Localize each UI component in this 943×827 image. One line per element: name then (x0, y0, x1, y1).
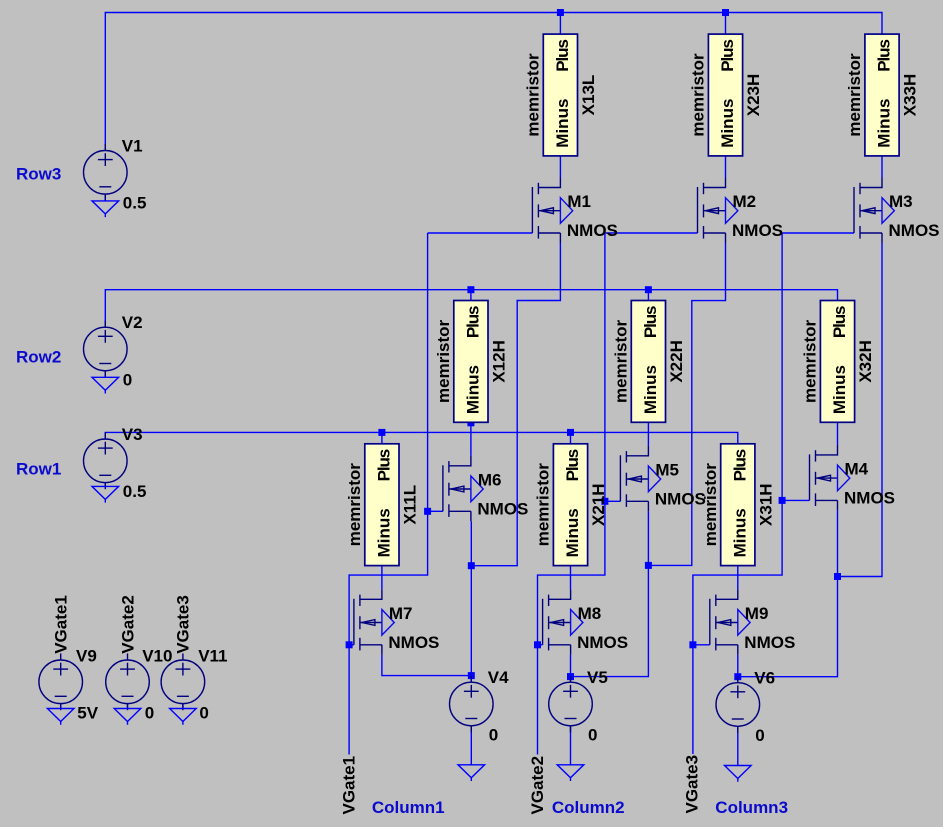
svg-text:0: 0 (588, 725, 597, 744)
wire X11L minus to M7 drain (381, 566, 383, 590)
ground V4 gnd (458, 765, 485, 781)
svg-text:0: 0 (145, 704, 154, 723)
transistor M7 (NMOS) (354, 589, 394, 655)
svg-text:Minus: Minus (730, 508, 749, 557)
svg-text:Minus: Minus (464, 365, 483, 414)
svg-text:Column3: Column3 (715, 798, 788, 817)
svg-text:memristor: memristor (612, 319, 631, 403)
wire X22H plus drop (647, 290, 649, 301)
wire V6 to ground (737, 726, 739, 765)
wire M6 gate feed (428, 510, 443, 512)
wire V3 to Row1 rail (105, 432, 738, 443)
voltage source V1 (84, 144, 128, 201)
svg-text:V10: V10 (142, 646, 172, 665)
junction M8 gate tap (534, 641, 541, 648)
memristor X33H (845, 34, 920, 156)
voltage source V10 (106, 653, 150, 710)
svg-text:V2: V2 (122, 313, 143, 332)
junction M6 gate tap (424, 508, 431, 515)
svg-text:0.5: 0.5 (123, 194, 147, 213)
memristor X21H (534, 444, 609, 566)
memristor X12H (434, 301, 509, 423)
wire X33H minus to M3 drain (881, 156, 883, 178)
svg-text:Plus: Plus (375, 449, 394, 481)
voltage source V5 (549, 676, 593, 733)
svg-text:NMOS: NMOS (655, 489, 706, 508)
svg-text:Row2: Row2 (16, 348, 61, 367)
junction X12H minus pin (467, 419, 474, 426)
svg-text:memristor: memristor (801, 319, 820, 403)
svg-text:5V: 5V (77, 704, 98, 723)
svg-text:Row1: Row1 (16, 459, 61, 478)
junction Row2/X12H (467, 286, 474, 293)
junction Row3/X23H (722, 9, 729, 16)
svg-text:NMOS: NMOS (477, 499, 528, 518)
svg-text:V9: V9 (76, 646, 97, 665)
svg-text:X12H: X12H (490, 340, 509, 383)
ground V1 gnd (92, 201, 119, 217)
memristor X11L (345, 444, 420, 566)
junction V5 top node (567, 673, 574, 680)
wire M5 source down column2 (571, 511, 649, 676)
svg-text:M8: M8 (578, 604, 602, 623)
svg-text:Minus: Minus (553, 99, 572, 148)
svg-text:Plus: Plus (875, 40, 894, 72)
svg-text:Plus: Plus (718, 40, 737, 72)
wire X12H minus to M6 drain (470, 422, 472, 456)
junction Row3/X13L (557, 9, 564, 16)
memristor X23H (689, 34, 764, 156)
voltage source V6 (716, 676, 760, 733)
junction M7 gate tap (346, 641, 353, 648)
wire M1 gate feed (428, 232, 533, 234)
svg-text:Column1: Column1 (372, 798, 445, 817)
wire X23H plus drop (725, 13, 727, 35)
svg-text:X32H: X32H (856, 340, 875, 383)
wire V9 to ground (60, 704, 62, 709)
transistor M5 (NMOS) (620, 446, 660, 512)
wire V1 to ground (104, 194, 106, 201)
wire M7 source to V4 (382, 655, 471, 676)
svg-text:memristor: memristor (534, 463, 553, 547)
svg-text:M7: M7 (389, 604, 413, 623)
ground V3 gnd (92, 486, 119, 502)
wire V4 top (470, 676, 472, 683)
wire V2 to ground (104, 371, 106, 378)
svg-text:memristor: memristor (345, 463, 364, 547)
svg-text:VGate1: VGate1 (52, 595, 71, 654)
transistor M8 (NMOS) (543, 589, 583, 655)
wire M5 gate feed (605, 500, 621, 502)
svg-text:Minus: Minus (563, 508, 582, 557)
svg-text:VGate1: VGate1 (340, 756, 359, 815)
svg-text:V1: V1 (122, 137, 143, 156)
wire M9 source down (737, 655, 739, 677)
svg-text:NMOS: NMOS (732, 221, 783, 240)
svg-text:M4: M4 (845, 459, 869, 478)
svg-text:V11: V11 (198, 646, 227, 665)
svg-text:0.5: 0.5 (123, 482, 147, 501)
wire V2 to Row2 rail (105, 290, 837, 328)
ground V5 gnd (557, 765, 584, 781)
svg-text:X31H: X31H (756, 483, 775, 526)
svg-text:M6: M6 (478, 470, 502, 489)
wire X23H minus to M2 drain (725, 156, 727, 178)
junction Row1/X21H (567, 429, 574, 436)
wire V6 top (737, 677, 739, 683)
svg-text:Plus: Plus (641, 306, 660, 338)
ground V10 gnd (114, 709, 141, 725)
svg-text:0: 0 (199, 704, 208, 723)
wire V1 to Row3 top rail (105, 13, 882, 151)
wire M4 source down column3 (738, 510, 838, 676)
svg-text:Minus: Minus (875, 99, 894, 148)
svg-text:memristor: memristor (689, 53, 708, 137)
voltage source V4 (450, 676, 494, 733)
wire V5 to ground (570, 726, 572, 765)
junction V6 top node (734, 673, 741, 680)
svg-text:V6: V6 (754, 669, 775, 688)
wire VGate3 bus (693, 233, 782, 754)
voltage source V11 (161, 653, 205, 710)
svg-text:memristor: memristor (524, 53, 543, 137)
junction V4 top node (468, 672, 475, 679)
wire M2 gate feed (605, 232, 698, 234)
wire M8 source down (570, 655, 572, 677)
svg-text:Plus: Plus (563, 449, 582, 481)
svg-text:memristor: memristor (434, 319, 453, 403)
svg-text:M5: M5 (655, 460, 679, 479)
wire X32H minus to M4 drain (837, 422, 839, 445)
svg-text:Minus: Minus (830, 365, 849, 414)
wire VGate2 bus (538, 233, 605, 755)
svg-text:VGate3: VGate3 (683, 755, 702, 814)
wire M4 gate feed (782, 499, 809, 501)
wire X12H plus drop (470, 290, 472, 301)
svg-text:Minus: Minus (375, 508, 394, 557)
junction column3 node (834, 573, 841, 580)
ground V2 gnd (92, 377, 119, 393)
wire V4 to ground (470, 726, 472, 765)
wire M6 source down column1 (470, 521, 472, 675)
svg-text:NMOS: NMOS (388, 633, 439, 652)
svg-text:memristor: memristor (845, 53, 864, 137)
wire V3 to ground (104, 483, 106, 487)
wire X13L minus to M1 drain (559, 156, 561, 178)
svg-text:Minus: Minus (641, 365, 660, 414)
wire X22H minus to M5 drain (647, 422, 649, 446)
wire V10 to ground (127, 704, 129, 709)
svg-text:VGate2: VGate2 (118, 595, 137, 654)
svg-text:Column2: Column2 (552, 798, 625, 817)
svg-text:V4: V4 (488, 668, 509, 687)
wire V11 to ground (182, 704, 184, 709)
junction Row1/X11L (378, 429, 385, 436)
wire M7 gate feed (349, 644, 354, 646)
wire X13L plus drop (559, 13, 561, 35)
transistor M2 (NMOS) (698, 178, 738, 244)
ground V9 gnd (47, 709, 74, 725)
svg-text:X11L: X11L (401, 485, 420, 525)
svg-text:NMOS: NMOS (744, 633, 795, 652)
wire VGate1 bus (349, 233, 428, 755)
svg-text:M9: M9 (745, 604, 769, 623)
transistor M3 (NMOS) (854, 178, 894, 244)
svg-text:M2: M2 (733, 192, 757, 211)
wire M2 source jog down (648, 243, 725, 565)
junction M9 gate tap (689, 641, 696, 648)
ground V11 gnd (170, 709, 197, 725)
ground V6 gnd (725, 766, 752, 782)
svg-text:VGate3: VGate3 (174, 595, 193, 654)
svg-text:Plus: Plus (730, 449, 749, 481)
svg-text:V5: V5 (587, 668, 608, 687)
transistor M1 (NMOS) (532, 178, 572, 244)
junction column1 node (468, 562, 475, 569)
svg-text:VGate2: VGate2 (528, 756, 547, 815)
wire M3 gate feed (782, 232, 854, 234)
svg-text:X13L: X13L (579, 75, 598, 116)
svg-text:Row3: Row3 (16, 165, 61, 184)
svg-text:NMOS: NMOS (844, 488, 895, 507)
wire X21H plus drop (570, 432, 572, 443)
wire X11L plus drop (381, 432, 383, 443)
svg-text:M3: M3 (889, 192, 913, 211)
svg-text:0: 0 (489, 725, 498, 744)
svg-text:0: 0 (123, 370, 132, 389)
junction Row2/X22H (645, 286, 652, 293)
transistor M9 (NMOS) (710, 589, 750, 655)
voltage source V2 (84, 321, 128, 378)
svg-text:X21H: X21H (589, 483, 608, 526)
svg-text:Plus: Plus (553, 40, 572, 72)
svg-text:NMOS: NMOS (577, 633, 628, 652)
wire X21H minus to M8 drain (570, 566, 572, 590)
svg-text:NMOS: NMOS (567, 221, 618, 240)
junction M4 gate tap (779, 497, 786, 504)
junction column2 node (645, 562, 652, 569)
svg-text:Plus: Plus (830, 306, 849, 338)
wire M3 source down (838, 243, 883, 577)
svg-text:X22H: X22H (667, 340, 686, 383)
svg-text:NMOS: NMOS (889, 221, 940, 240)
memristor X31H (701, 444, 776, 566)
wire M8 gate feed (538, 644, 543, 646)
voltage source V9 (39, 653, 83, 710)
transistor M4 (NMOS) (810, 445, 850, 511)
junction M5 gate tap (601, 498, 608, 505)
svg-text:X33H: X33H (901, 74, 920, 117)
memristor X22H (612, 301, 687, 423)
wire X31H minus to M9 drain (737, 566, 739, 590)
svg-text:0: 0 (755, 726, 764, 745)
svg-text:Plus: Plus (464, 306, 483, 338)
svg-text:Minus: Minus (718, 99, 737, 148)
wire V5 top (570, 677, 572, 683)
svg-text:M1: M1 (567, 192, 591, 211)
transistor M6 (NMOS) (443, 456, 483, 522)
voltage source V3 (84, 432, 128, 489)
wire M9 gate feed (693, 644, 710, 646)
svg-text:X23H: X23H (744, 74, 763, 117)
memristor X32H (801, 301, 876, 423)
memristor X13L (524, 34, 599, 156)
svg-text:V3: V3 (122, 425, 143, 444)
wire M1 source jog down (471, 243, 560, 566)
